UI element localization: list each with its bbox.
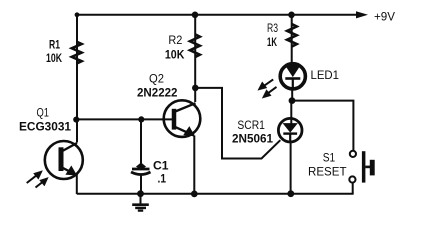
svg-text:R3: R3 — [267, 21, 278, 35]
wire C1 bottom lead — [140, 176, 142, 195]
LED1 light arrow 1 — [258, 79, 273, 90]
node top-left corner — [75, 12, 80, 17]
node Q1 collector / base-wire junction — [73, 117, 79, 123]
Q1 light arrow 2 — [36, 177, 49, 187]
wire LED node to switch S1 — [292, 101, 353, 151]
wire SCR anode lead — [290, 101, 292, 124]
wire C1 top lead — [140, 119, 142, 168]
resistor R2 — [190, 34, 200, 57]
node ground junction — [137, 190, 144, 197]
svg-text:Q1: Q1 — [37, 105, 50, 119]
wire junction to Q2 base — [76, 118, 174, 120]
capacitor C1 — [131, 163, 151, 174]
node Q2 emitter junction — [191, 191, 198, 198]
wire R3 branch — [291, 15, 293, 64]
node R3 top rail junction — [288, 12, 295, 19]
svg-text:SCR1: SCR1 — [237, 118, 265, 132]
wire top +9V rail — [77, 14, 360, 16]
node R2 top rail junction — [192, 12, 199, 19]
svg-text:2N5061: 2N5061 — [232, 131, 273, 145]
+9V arrowhead — [356, 11, 368, 18]
svg-text:+9V: +9V — [374, 12, 395, 24]
svg-text:R1: R1 — [49, 38, 60, 52]
wire SCR gate from Q2 collector node — [195, 88, 280, 159]
transistor Q1 — [45, 141, 83, 194]
wire bottom ground rail — [77, 193, 354, 195]
transistor Q2 — [164, 100, 201, 194]
svg-text:R2: R2 — [168, 33, 182, 47]
LED1 — [280, 64, 305, 100]
SCR1 — [278, 118, 302, 194]
switch S1 — [349, 151, 374, 194]
svg-text:Q2: Q2 — [149, 72, 164, 86]
LED1 light arrow 2 — [262, 87, 276, 98]
wire left branch from rail to Q1 collector — [76, 14, 78, 143]
svg-text:LED1: LED1 — [311, 68, 340, 82]
ground — [132, 194, 149, 211]
node Q2 collector junction — [192, 85, 199, 92]
svg-text:1K: 1K — [267, 35, 277, 49]
Q1 light arrow 1 — [27, 171, 43, 183]
svg-text:.1: .1 — [158, 173, 167, 185]
node SCR cathode junction — [287, 190, 294, 197]
svg-text:ECG3031: ECG3031 — [19, 119, 71, 133]
svg-text:2N2222: 2N2222 — [137, 86, 178, 100]
svg-text:C1: C1 — [153, 160, 169, 172]
svg-text:RESET: RESET — [308, 164, 347, 178]
resistor R1 — [72, 42, 82, 64]
resistor R3 — [287, 24, 297, 46]
svg-text:10K: 10K — [165, 47, 185, 61]
node C1 top junction — [138, 116, 144, 122]
svg-text:S1: S1 — [323, 151, 336, 165]
wire R2 branch — [194, 15, 196, 102]
node LED cathode junction — [289, 97, 296, 104]
svg-text:10K: 10K — [46, 51, 62, 65]
